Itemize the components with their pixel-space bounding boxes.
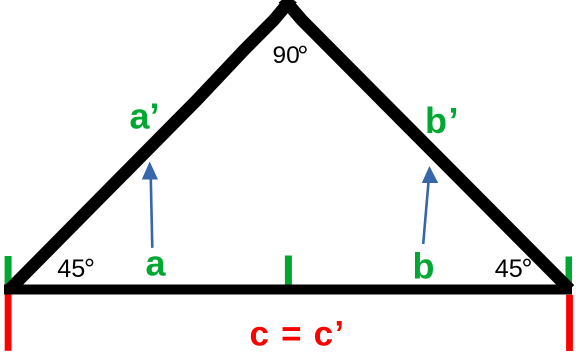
arrowhead right (blue triangle) [422,166,438,183]
red segment c left end marker [5,294,12,350]
tick mark right (green, on base right end) [566,257,573,286]
arrow from b to right leg (blue shaft) [423,183,428,244]
arrowhead left (blue triangle) [142,162,158,180]
triangle leg a' (black left slanted side) [10,0,293,290]
svg-text:90°: 90° [273,40,309,71]
red segment c right end marker [566,295,573,351]
svg-text:b’: b’ [425,100,460,141]
tick mark center (green, base midpoint) [285,256,292,286]
svg-text:a’: a’ [130,96,160,137]
svg-text:45°: 45° [495,253,533,284]
svg-text:b: b [413,246,435,287]
triangle leg b' (black right slanted side) [283,0,569,290]
tick mark left (green, on base left end) [5,256,12,285]
svg-text:c = c’: c = c’ [250,315,346,354]
svg-text:45°: 45° [57,253,95,284]
svg-text:a: a [146,243,167,284]
side c base (black horizontal side) [4,285,572,295]
arrow from a to left leg (blue shaft) [151,180,153,248]
